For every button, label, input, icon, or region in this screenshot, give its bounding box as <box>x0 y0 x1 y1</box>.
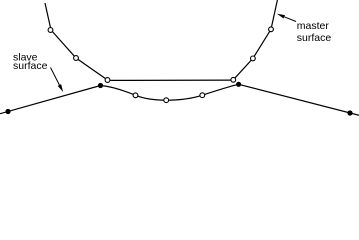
node: open master node 4 (right contact) <box>231 77 236 82</box>
arrow: master label arrowhead <box>277 14 285 19</box>
node: open master node 2 <box>74 56 79 61</box>
wire: master surface upper-left segment polyline <box>45 3 108 80</box>
node: filled slave node 4 <box>347 110 352 115</box>
node: open master node 6 <box>269 27 274 32</box>
arrow: slave label leader line <box>51 68 60 86</box>
node: open master node 5 <box>251 56 256 61</box>
svg-text:surface: surface <box>297 32 332 44</box>
wire: master surface sagging curve between slave nodes <box>101 84 239 100</box>
node: open master node 3 (left contact) <box>105 78 110 83</box>
node: filled slave node 3 <box>236 82 241 87</box>
node: filled slave node 1 <box>5 109 10 114</box>
node: open sag node 2 <box>164 98 169 103</box>
node: open master node 1 <box>48 28 53 33</box>
node: open sag node 1 <box>133 93 138 98</box>
wire: slave surface left straight line <box>0 86 101 114</box>
svg-text:master: master <box>297 20 330 32</box>
wire: master surface upper-right segment polyline <box>233 0 277 80</box>
node: open sag node 3 <box>200 93 205 98</box>
svg-text:surface: surface <box>13 60 48 72</box>
node: filled slave node 2 <box>98 83 103 88</box>
arrow: slave label arrowhead <box>58 84 64 92</box>
wire: master facet chord line between contact nodes <box>108 79 234 81</box>
wire: slave surface right straight line <box>239 84 359 115</box>
arrow: master label leader line <box>284 17 296 22</box>
